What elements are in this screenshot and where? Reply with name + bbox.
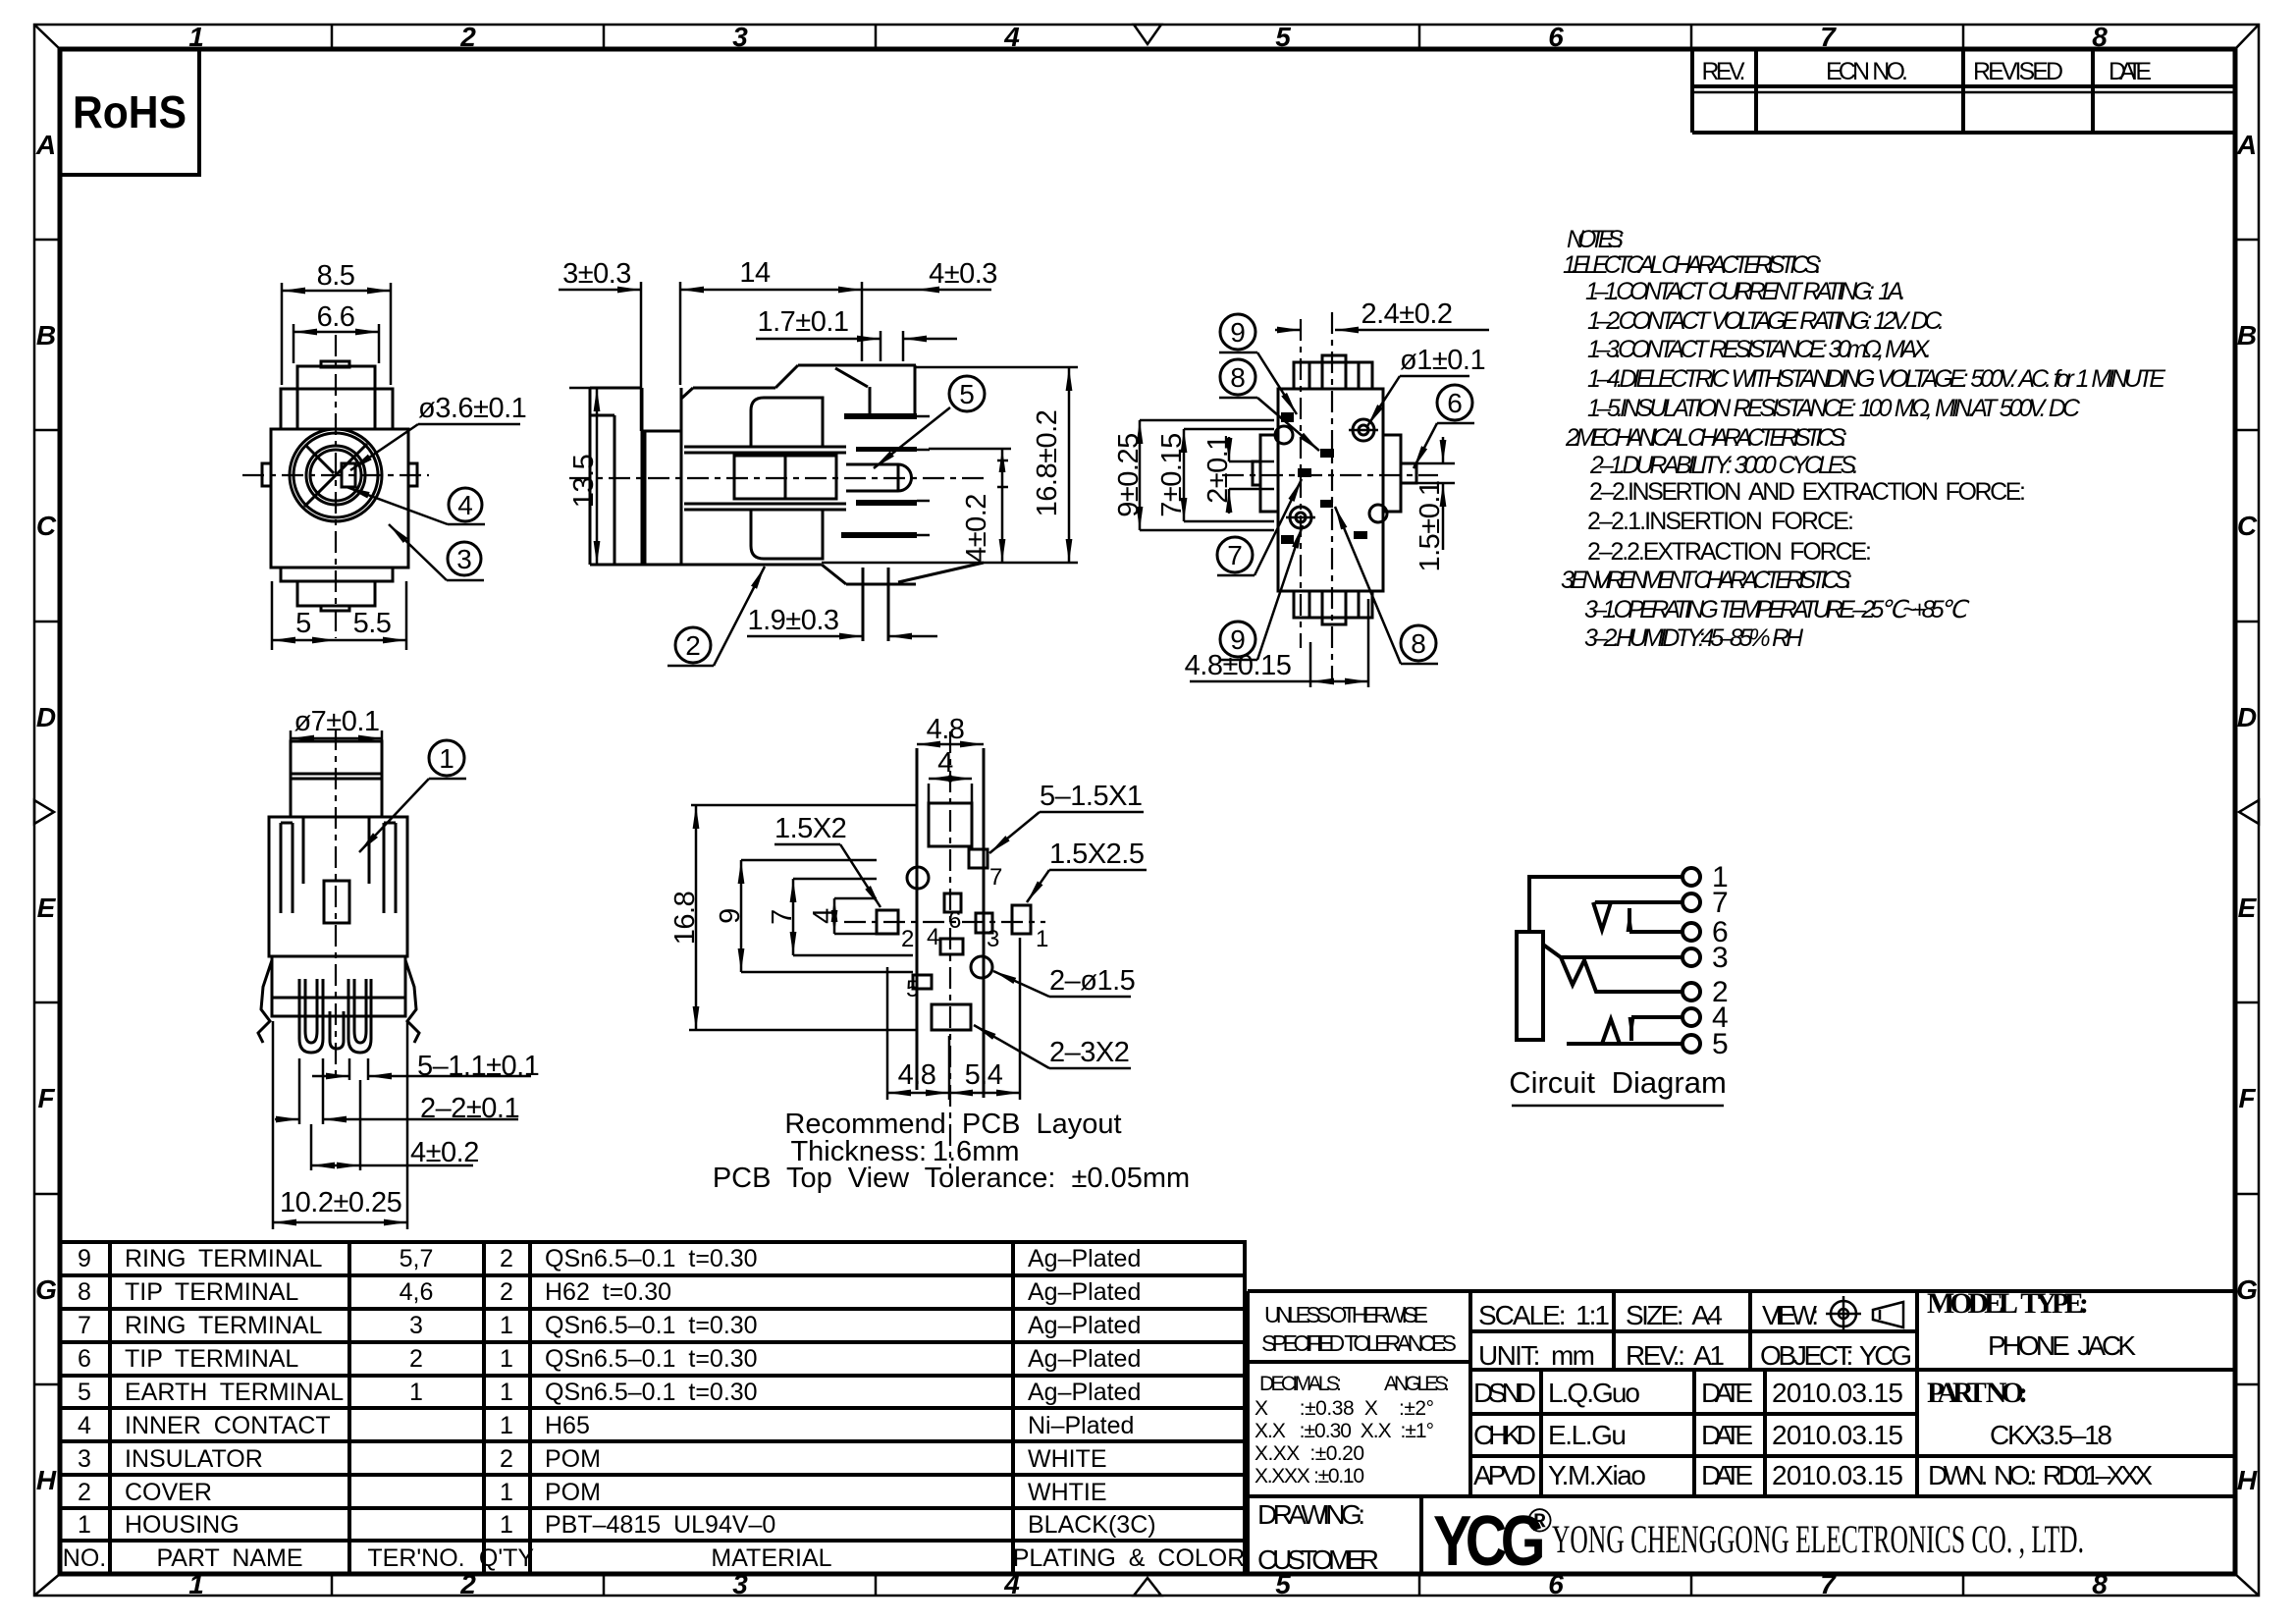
svg-text:POM: POM [545, 1445, 601, 1473]
svg-text:UNIT: mm: UNIT: mm [1478, 1340, 1595, 1371]
svg-text:DSND: DSND [1473, 1378, 1536, 1408]
svg-text:Q'TY: Q'TY [479, 1544, 534, 1572]
svg-text:E: E [37, 893, 57, 923]
svg-text:2: 2 [500, 1278, 513, 1306]
svg-text:8.5: 8.5 [317, 260, 355, 292]
svg-text:2: 2 [500, 1445, 513, 1473]
svg-text:2010.03.15: 2010.03.15 [1772, 1378, 1903, 1408]
svg-text:7: 7 [1820, 22, 1837, 52]
svg-text:OBJECT: YCG: OBJECT: YCG [1760, 1340, 1912, 1371]
svg-text:ø3.6±0.1: ø3.6±0.1 [418, 393, 526, 424]
svg-text:SCALE: 1:1: SCALE: 1:1 [1478, 1300, 1610, 1330]
svg-text:2.4±0.2: 2.4±0.2 [1361, 298, 1452, 330]
svg-text:Ag–Plated: Ag–Plated [1028, 1312, 1141, 1339]
svg-text:F: F [37, 1083, 55, 1113]
svg-text:6.6: 6.6 [317, 301, 355, 333]
svg-text:4±0.2: 4±0.2 [410, 1137, 479, 1168]
svg-text:3: 3 [409, 1312, 423, 1339]
svg-text:CUSTOMER: CUSTOMER [1257, 1544, 1379, 1575]
svg-text:Y.M.Xiao: Y.M.Xiao [1548, 1460, 1646, 1490]
svg-text:7±0.15: 7±0.15 [1156, 433, 1188, 517]
svg-text:2: 2 [901, 926, 914, 952]
svg-text:D: D [2237, 702, 2257, 732]
svg-text:C: C [2237, 511, 2258, 541]
svg-text:EARTH TERMINAL: EARTH TERMINAL [125, 1379, 344, 1406]
svg-text:1: 1 [500, 1345, 513, 1373]
svg-text:10.2±0.25: 10.2±0.25 [280, 1187, 401, 1218]
svg-text:1: 1 [500, 1412, 513, 1439]
svg-text:VIEW:: VIEW: [1762, 1300, 1819, 1330]
svg-text:ECN NO.: ECN NO. [1826, 58, 1908, 85]
svg-text:2–2.1.INSERTION FORCE:: 2–2.1.INSERTION FORCE: [1587, 508, 1854, 535]
svg-text:3: 3 [456, 544, 472, 574]
svg-text:1: 1 [409, 1379, 423, 1406]
svg-text:8: 8 [1230, 362, 1246, 393]
svg-text:QSn6.5–0.1 t=0.30: QSn6.5–0.1 t=0.30 [545, 1379, 758, 1406]
svg-text:4.8: 4.8 [898, 1059, 936, 1091]
svg-text:5.4: 5.4 [965, 1059, 1003, 1091]
svg-text:8: 8 [78, 1278, 91, 1306]
svg-text:7: 7 [1712, 887, 1729, 919]
svg-text:2±0.1: 2±0.1 [1202, 435, 1234, 504]
svg-text:RING TERMINAL: RING TERMINAL [125, 1245, 322, 1272]
svg-text:UNLESS OTHERWISE: UNLESS OTHERWISE [1264, 1302, 1428, 1327]
svg-text:2.MECHANICAL CHARACTERISTICS:: 2.MECHANICAL CHARACTERISTICS: [1565, 424, 1847, 452]
svg-text:16.8: 16.8 [669, 892, 701, 945]
svg-text:1.9±0.3: 1.9±0.3 [747, 605, 838, 636]
svg-text:INNER CONTACT: INNER CONTACT [125, 1412, 331, 1439]
svg-text:H62 t=0.30: H62 t=0.30 [545, 1278, 671, 1306]
svg-text:1–4.DIELECTRIC WITHSTANDING: 1–4.DIELECTRIC WITHSTANDING VOLTAGE: 500… [1587, 365, 2165, 393]
svg-text:8: 8 [1411, 628, 1426, 659]
svg-text:1: 1 [1036, 926, 1048, 952]
svg-text:TIP TERMINAL: TIP TERMINAL [125, 1345, 298, 1373]
svg-text:SPECIFIED TOLERANCES: SPECIFIED TOLERANCES [1261, 1330, 1457, 1356]
svg-text:7: 7 [1820, 1569, 1837, 1599]
svg-text:6: 6 [1548, 22, 1564, 52]
svg-text:1.5X2: 1.5X2 [774, 813, 846, 844]
svg-text:QSn6.5–0.1 t=0.30: QSn6.5–0.1 t=0.30 [545, 1345, 758, 1373]
svg-text:A: A [2236, 130, 2257, 160]
svg-text:9: 9 [715, 908, 746, 924]
svg-text:2: 2 [685, 630, 701, 661]
svg-text:5: 5 [295, 608, 311, 639]
svg-text:3–1.OPERATING TEMPERATURE.–25: 3–1.OPERATING TEMPERATURE.–25℃~+85℃ [1584, 596, 1970, 623]
svg-text:REV.: REV. [1702, 58, 1746, 85]
svg-text:G: G [35, 1274, 57, 1305]
svg-text:8: 8 [2092, 1569, 2108, 1599]
svg-text:5,7: 5,7 [400, 1245, 434, 1272]
svg-text:DATE: DATE [1701, 1378, 1753, 1408]
svg-text:5: 5 [906, 976, 919, 1002]
svg-text:NOTES:: NOTES: [1567, 226, 1624, 253]
svg-text:9±0.25: 9±0.25 [1113, 433, 1145, 517]
svg-text:1: 1 [500, 1511, 513, 1539]
svg-text:7: 7 [78, 1312, 91, 1339]
svg-text:4,6: 4,6 [400, 1278, 434, 1306]
svg-text:REVISED: REVISED [1973, 58, 2063, 85]
svg-text:TIP TERMINAL: TIP TERMINAL [125, 1278, 298, 1306]
svg-text:YCG: YCG [1433, 1502, 1542, 1581]
svg-text:3: 3 [732, 22, 748, 52]
svg-text:9: 9 [1230, 317, 1246, 348]
svg-text:5–1.5X1: 5–1.5X1 [1040, 781, 1143, 812]
svg-text:1–3.CONTACT RESISTANCE: 30mΩ: 1–3.CONTACT RESISTANCE: 30mΩ, MAX. [1587, 336, 1932, 363]
svg-text:WHITE: WHITE [1028, 1445, 1107, 1473]
svg-text:PART NO:: PART NO: [1927, 1377, 2028, 1409]
svg-text:ANGLES:: ANGLES: [1384, 1373, 1450, 1395]
svg-text:SIZE: A4: SIZE: A4 [1626, 1300, 1723, 1330]
svg-text:X.XX :±0.20: X.XX :±0.20 [1255, 1442, 1364, 1465]
svg-text:14: 14 [739, 257, 771, 289]
svg-text:9: 9 [1230, 624, 1246, 655]
svg-text:3±0.3: 3±0.3 [562, 258, 631, 290]
svg-text:X :±0.38 X :±2°: X :±0.38 X :±2° [1255, 1397, 1434, 1420]
svg-text:PHONE JACK: PHONE JACK [1988, 1330, 2136, 1361]
svg-text:2: 2 [459, 22, 476, 52]
svg-text:16.8±0.2: 16.8±0.2 [1032, 410, 1063, 517]
svg-text:7: 7 [767, 909, 798, 925]
svg-text:DATE: DATE [1701, 1460, 1753, 1490]
svg-text:G: G [2236, 1274, 2258, 1305]
svg-text:4: 4 [927, 924, 939, 950]
svg-text:4.8: 4.8 [927, 714, 965, 745]
svg-text:Ni–Plated: Ni–Plated [1028, 1412, 1134, 1439]
svg-text:5: 5 [78, 1379, 91, 1406]
svg-text:5.5: 5.5 [353, 608, 392, 639]
svg-text:Ag–Plated: Ag–Plated [1028, 1379, 1141, 1406]
svg-text:4: 4 [457, 490, 473, 520]
svg-text:DATE: DATE [1701, 1420, 1753, 1450]
svg-text:6: 6 [1548, 1569, 1564, 1599]
svg-text:4: 4 [937, 747, 953, 779]
svg-text:®: ® [1527, 1502, 1552, 1540]
svg-text:4: 4 [1003, 22, 1020, 52]
svg-text:L.Q.Guo: L.Q.Guo [1548, 1378, 1640, 1408]
svg-text:D: D [36, 702, 56, 732]
svg-text:POM: POM [545, 1479, 601, 1506]
svg-text:BLACK(3C): BLACK(3C) [1028, 1511, 1156, 1539]
svg-text:1.7±0.1: 1.7±0.1 [757, 306, 848, 338]
svg-text:H65: H65 [545, 1412, 590, 1439]
svg-text:RING TERMINAL: RING TERMINAL [125, 1312, 322, 1339]
svg-text:1–5.INSULATION RESISTANCE: 1: 1–5.INSULATION RESISTANCE: 100 MΩ, MIN.A… [1587, 395, 2081, 422]
svg-text:HOUSING: HOUSING [125, 1511, 240, 1539]
svg-text:H: H [36, 1465, 57, 1495]
svg-text:1: 1 [78, 1511, 91, 1539]
svg-text:TER'NO.: TER'NO. [367, 1544, 464, 1572]
svg-text:PBT–4815 UL94V–0: PBT–4815 UL94V–0 [545, 1511, 775, 1539]
svg-text:CHKD: CHKD [1473, 1420, 1536, 1450]
svg-text:NO.: NO. [63, 1544, 106, 1572]
svg-text:13.5: 13.5 [568, 455, 600, 508]
svg-text:1.ELECTCAL CHARACTERISTICS:: 1.ELECTCAL CHARACTERISTICS: [1563, 251, 1822, 279]
svg-text:WHTIE: WHTIE [1028, 1479, 1107, 1506]
svg-text:7: 7 [989, 864, 1002, 891]
svg-text:E.L.Gu: E.L.Gu [1548, 1420, 1627, 1450]
svg-text:DWN. NO.: RD01–XXX: DWN. NO.: RD01–XXX [1928, 1460, 2153, 1490]
svg-text:Ag–Plated: Ag–Plated [1028, 1278, 1141, 1306]
svg-text:Circuit Diagram: Circuit Diagram [1509, 1065, 1727, 1100]
svg-text:ø7±0.1: ø7±0.1 [294, 706, 379, 737]
svg-text:6: 6 [78, 1345, 91, 1373]
svg-text:C: C [36, 511, 57, 541]
svg-text:2–2.2.EXTRACTION FORCE:: 2–2.2.EXTRACTION FORCE: [1587, 538, 1872, 566]
svg-text:1: 1 [500, 1312, 513, 1339]
svg-text:4±0.3: 4±0.3 [929, 258, 997, 290]
svg-text:PCB Top View Tolerance: ±0: PCB Top View Tolerance: ±0.05mm [713, 1163, 1190, 1194]
svg-text:1.5X2.5: 1.5X2.5 [1049, 839, 1144, 870]
svg-text:H: H [2237, 1465, 2258, 1495]
svg-text:5: 5 [1275, 22, 1291, 52]
svg-text:2010.03.15: 2010.03.15 [1772, 1460, 1903, 1490]
svg-text:5: 5 [1712, 1028, 1729, 1060]
svg-text:2010.03.15: 2010.03.15 [1772, 1420, 1903, 1450]
svg-text:6: 6 [948, 907, 961, 934]
svg-text:QSn6.5–0.1 t=0.30: QSn6.5–0.1 t=0.30 [545, 1245, 758, 1272]
svg-text:DECIMALS:: DECIMALS: [1259, 1373, 1342, 1395]
svg-text:1.5±0.1: 1.5±0.1 [1415, 480, 1446, 571]
svg-text:7: 7 [1227, 540, 1243, 570]
svg-text:2: 2 [500, 1245, 513, 1272]
svg-text:B: B [2237, 320, 2257, 351]
svg-text:ø1±0.1: ø1±0.1 [1400, 345, 1485, 376]
svg-text:MODEL TYPE:: MODEL TYPE: [1927, 1287, 2089, 1320]
svg-text:2–2.INSERTION AND EXTRACTION: 2–2.INSERTION AND EXTRACTION FORCE: [1589, 478, 2026, 506]
svg-text:4: 4 [78, 1412, 91, 1439]
svg-text:B: B [36, 320, 56, 351]
svg-text:YONG CHENGGONG ELECTRONICS: YONG CHENGGONG ELECTRONICS CO. , LTD. [1552, 1517, 2084, 1561]
svg-text:8: 8 [2092, 22, 2108, 52]
svg-text:A: A [35, 130, 56, 160]
svg-text:2–1.DURABILITY: 3000 CYCLES.: 2–1.DURABILITY: 3000 CYCLES. [1589, 452, 1859, 479]
svg-text:4: 4 [808, 908, 839, 924]
svg-text:F: F [2238, 1083, 2256, 1113]
svg-text:Ag–Plated: Ag–Plated [1028, 1245, 1141, 1272]
svg-text:DATE: DATE [2109, 58, 2152, 85]
svg-text:1–1.CONTACT CURRENT RATING:: 1–1.CONTACT CURRENT RATING: 1A. [1585, 278, 1906, 305]
svg-text:DRAWING:: DRAWING: [1257, 1499, 1365, 1530]
svg-text:X.XXX :±0.10: X.XXX :±0.10 [1255, 1465, 1364, 1488]
svg-text:3: 3 [987, 926, 999, 952]
svg-text:1: 1 [500, 1479, 513, 1506]
svg-text:6: 6 [1447, 388, 1463, 418]
svg-text:2–3X2: 2–3X2 [1049, 1037, 1129, 1068]
svg-text:E: E [2238, 893, 2258, 923]
svg-text:2–ø1.5: 2–ø1.5 [1049, 965, 1135, 997]
svg-text:3: 3 [78, 1445, 91, 1473]
svg-text:5: 5 [959, 379, 975, 409]
svg-text:QSn6.5–0.1 t=0.30: QSn6.5–0.1 t=0.30 [545, 1312, 758, 1339]
svg-text:RoHS: RoHS [73, 86, 187, 137]
svg-text:3: 3 [1712, 942, 1729, 974]
svg-text:INSULATOR: INSULATOR [125, 1445, 263, 1473]
svg-text:APVD: APVD [1473, 1460, 1536, 1490]
svg-text:Ag–Plated: Ag–Plated [1028, 1345, 1141, 1373]
svg-text:COVER: COVER [125, 1479, 212, 1506]
svg-text:PLATING & COLOR: PLATING & COLOR [1013, 1544, 1246, 1572]
svg-text:1–2.CONTACT VOLTAGE RATING:: 1–2.CONTACT VOLTAGE RATING: 12V. DC. [1587, 307, 1945, 335]
svg-text:3–2.HUMIDTY:45–85% RH: 3–2.HUMIDTY:45–85% RH [1584, 624, 1804, 652]
svg-text:CKX3.5–18: CKX3.5–18 [1990, 1420, 2112, 1450]
svg-text:2: 2 [409, 1345, 423, 1373]
svg-text:3.ENVIRENMENT CHARACTERISTICS: 3.ENVIRENMENT CHARACTERISTICS: [1561, 567, 1852, 594]
svg-text:1: 1 [500, 1379, 513, 1406]
svg-text:4±0.2: 4±0.2 [961, 494, 992, 563]
svg-text:1: 1 [439, 743, 454, 774]
svg-text:9: 9 [78, 1245, 91, 1272]
svg-text:PART NAME: PART NAME [156, 1544, 302, 1572]
svg-text:2: 2 [78, 1479, 91, 1506]
svg-text:X.X :±0.30 X.X :±1°: X.X :±0.30 X.X :±1° [1255, 1420, 1434, 1442]
svg-text:REV.: A1: REV.: A1 [1626, 1340, 1725, 1371]
svg-text:MATERIAL: MATERIAL [711, 1544, 831, 1572]
